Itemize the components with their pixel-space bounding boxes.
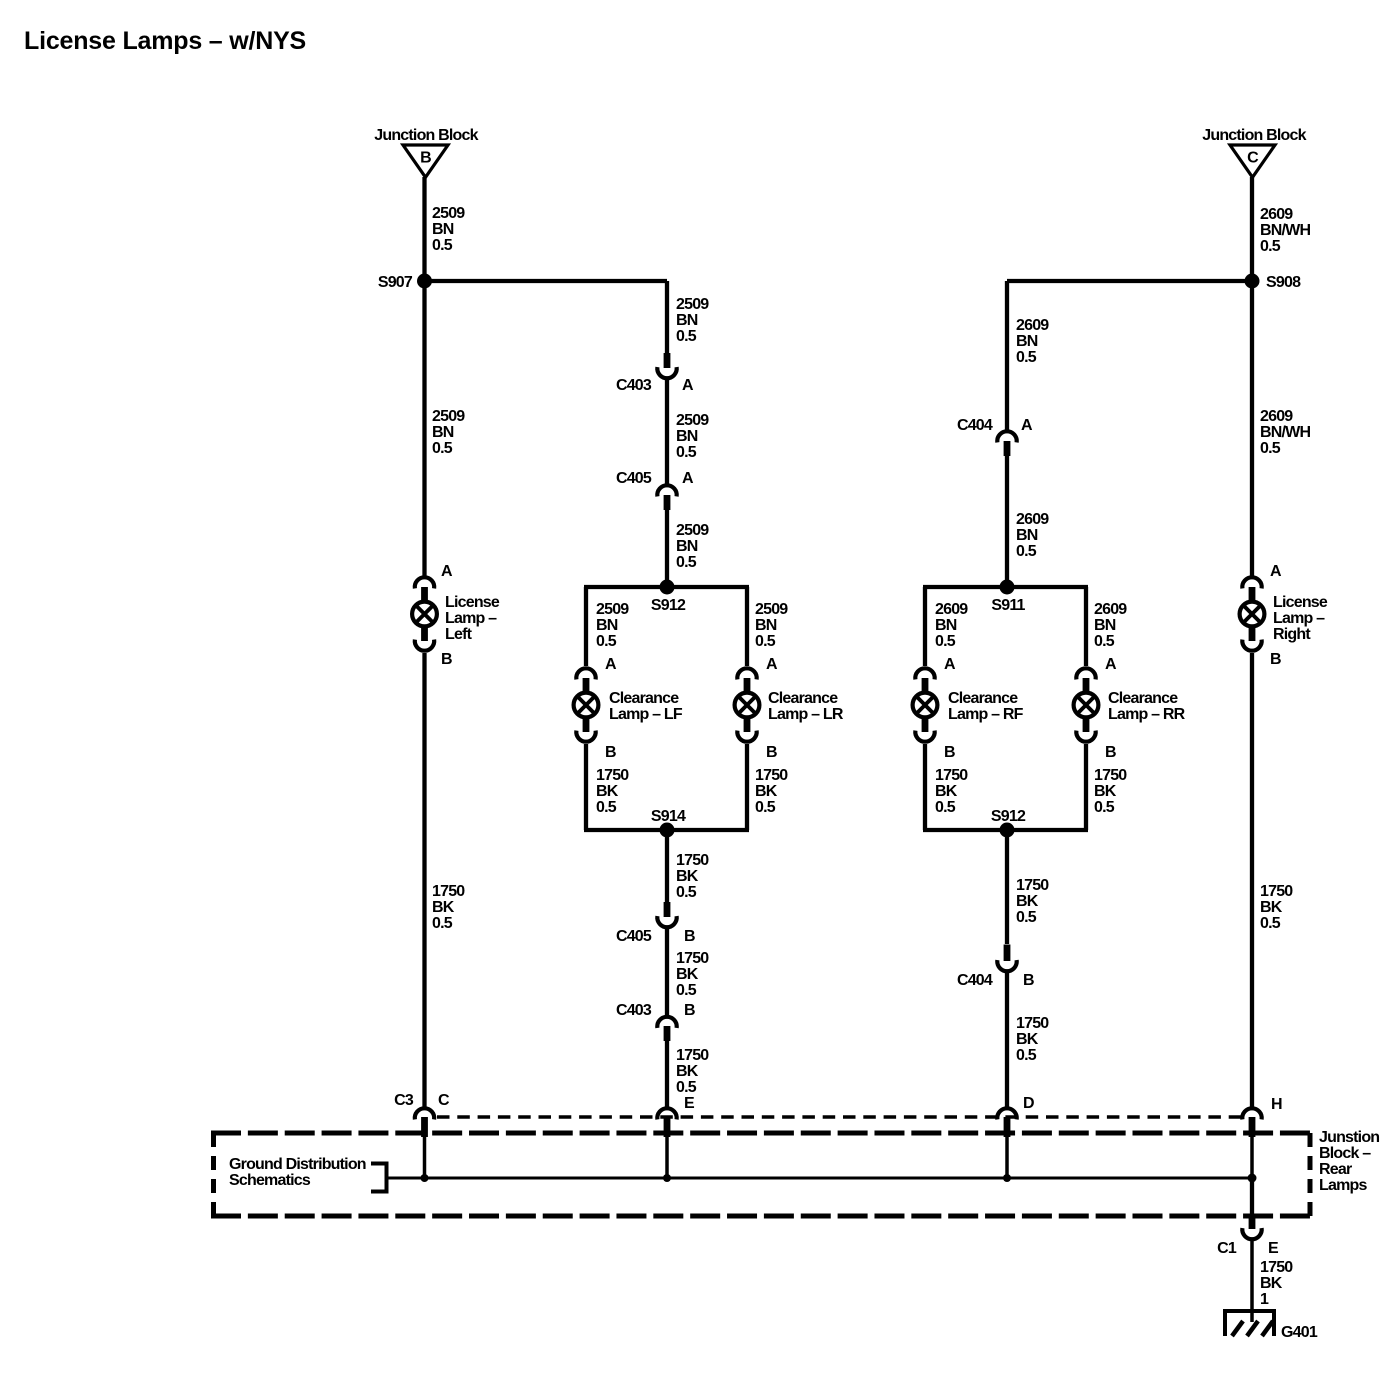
- svg-text:BN/WH: BN/WH: [1260, 222, 1310, 239]
- svg-text:A: A: [682, 470, 694, 487]
- svg-text:BK: BK: [676, 1063, 699, 1080]
- svg-text:Right: Right: [1273, 626, 1311, 643]
- svg-text:0.5: 0.5: [596, 799, 617, 816]
- svg-text:1750: 1750: [1260, 883, 1293, 900]
- svg-text:S912: S912: [651, 597, 686, 614]
- svg-text:0.5: 0.5: [676, 554, 697, 571]
- svg-text:BK: BK: [1016, 1031, 1039, 1048]
- svg-text:C: C: [438, 1092, 450, 1109]
- svg-text:C403: C403: [616, 377, 652, 394]
- svg-text:BN: BN: [1016, 333, 1038, 350]
- svg-text:Clearance: Clearance: [609, 690, 679, 707]
- svg-text:2509: 2509: [432, 205, 465, 222]
- svg-text:Left: Left: [445, 626, 473, 643]
- svg-text:C405: C405: [616, 928, 652, 945]
- svg-text:License: License: [445, 594, 500, 611]
- svg-text:1: 1: [1260, 1291, 1269, 1308]
- svg-text:C1: C1: [1217, 1240, 1237, 1257]
- svg-text:B: B: [441, 651, 452, 668]
- svg-text:BN: BN: [676, 428, 698, 445]
- svg-text:0.5: 0.5: [676, 444, 697, 461]
- svg-text:2509: 2509: [676, 412, 709, 429]
- svg-text:B: B: [684, 1002, 695, 1019]
- svg-text:BK: BK: [1016, 893, 1039, 910]
- svg-text:Junstion: Junstion: [1319, 1129, 1379, 1146]
- svg-text:2609: 2609: [1016, 317, 1049, 334]
- svg-text:1750: 1750: [676, 852, 709, 869]
- svg-text:A: A: [1021, 417, 1033, 434]
- svg-text:1750: 1750: [432, 883, 465, 900]
- svg-text:A: A: [682, 377, 694, 394]
- svg-text:BK: BK: [1094, 783, 1117, 800]
- svg-text:2509: 2509: [676, 296, 709, 313]
- svg-text:A: A: [605, 656, 617, 673]
- svg-text:BK: BK: [1260, 1275, 1283, 1292]
- svg-text:1750: 1750: [935, 767, 968, 784]
- svg-text:BN: BN: [676, 312, 698, 329]
- svg-text:B: B: [420, 150, 431, 167]
- svg-text:BN/WH: BN/WH: [1260, 424, 1310, 441]
- svg-text:S914: S914: [651, 808, 686, 825]
- svg-text:S907: S907: [378, 274, 413, 291]
- svg-text:0.5: 0.5: [1094, 633, 1115, 650]
- svg-text:0.5: 0.5: [676, 884, 697, 901]
- svg-text:2509: 2509: [755, 601, 788, 618]
- svg-text:0.5: 0.5: [676, 1079, 697, 1096]
- svg-text:2509: 2509: [676, 522, 709, 539]
- svg-text:Rear: Rear: [1319, 1161, 1352, 1178]
- svg-text:S912: S912: [991, 808, 1026, 825]
- svg-text:0.5: 0.5: [596, 633, 617, 650]
- svg-text:BN: BN: [432, 221, 454, 238]
- svg-text:0.5: 0.5: [935, 633, 956, 650]
- svg-text:A: A: [944, 656, 956, 673]
- svg-text:C403: C403: [616, 1002, 652, 1019]
- svg-text:C3: C3: [394, 1092, 414, 1109]
- svg-text:0.5: 0.5: [676, 982, 697, 999]
- svg-text:A: A: [1105, 656, 1117, 673]
- svg-text:1750: 1750: [1094, 767, 1127, 784]
- svg-text:2609: 2609: [1260, 206, 1293, 223]
- svg-text:0.5: 0.5: [1016, 1047, 1037, 1064]
- svg-text:B: B: [684, 928, 695, 945]
- svg-text:BK: BK: [755, 783, 778, 800]
- svg-text:0.5: 0.5: [1260, 915, 1281, 932]
- svg-text:Block –: Block –: [1319, 1145, 1371, 1162]
- svg-text:Clearance: Clearance: [1108, 690, 1178, 707]
- svg-text:B: B: [1023, 972, 1034, 989]
- svg-text:2609: 2609: [935, 601, 968, 618]
- svg-text:BK: BK: [935, 783, 958, 800]
- svg-text:BK: BK: [676, 966, 699, 983]
- svg-text:Ground Distribution: Ground Distribution: [229, 1156, 366, 1173]
- svg-text:BN: BN: [755, 617, 777, 634]
- svg-text:B: B: [1270, 651, 1281, 668]
- svg-text:B: B: [605, 744, 616, 761]
- svg-text:0.5: 0.5: [1016, 909, 1037, 926]
- svg-text:0.5: 0.5: [1260, 440, 1281, 457]
- svg-text:D: D: [1023, 1095, 1034, 1112]
- svg-text:E: E: [684, 1095, 695, 1112]
- svg-text:0.5: 0.5: [676, 328, 697, 345]
- svg-text:B: B: [1105, 744, 1116, 761]
- svg-text:Clearance: Clearance: [948, 690, 1018, 707]
- svg-text:B: B: [766, 744, 777, 761]
- svg-text:1750: 1750: [676, 1047, 709, 1064]
- svg-text:Lamp – LR: Lamp – LR: [768, 706, 844, 723]
- svg-text:BN: BN: [935, 617, 957, 634]
- svg-text:0.5: 0.5: [935, 799, 956, 816]
- svg-text:C405: C405: [616, 470, 652, 487]
- svg-text:BN: BN: [432, 424, 454, 441]
- svg-text:0.5: 0.5: [432, 915, 453, 932]
- svg-text:BK: BK: [676, 868, 699, 885]
- svg-text:S908: S908: [1266, 274, 1301, 291]
- svg-text:S911: S911: [991, 597, 1025, 614]
- svg-text:0.5: 0.5: [1016, 543, 1037, 560]
- svg-text:B: B: [944, 744, 955, 761]
- svg-text:H: H: [1271, 1096, 1282, 1113]
- svg-text:BN: BN: [676, 538, 698, 555]
- svg-text:Schematics: Schematics: [229, 1172, 311, 1189]
- svg-text:Junction Block: Junction Block: [374, 127, 478, 144]
- svg-text:C404: C404: [957, 417, 993, 434]
- svg-text:1750: 1750: [1016, 877, 1049, 894]
- svg-text:1750: 1750: [676, 950, 709, 967]
- svg-text:BK: BK: [1260, 899, 1283, 916]
- svg-text:0.5: 0.5: [1094, 799, 1115, 816]
- svg-text:1750: 1750: [1016, 1015, 1049, 1032]
- svg-text:0.5: 0.5: [432, 440, 453, 457]
- svg-text:2609: 2609: [1094, 601, 1127, 618]
- svg-text:Clearance: Clearance: [768, 690, 838, 707]
- svg-text:2509: 2509: [596, 601, 629, 618]
- svg-text:C: C: [1247, 150, 1259, 167]
- svg-text:E: E: [1268, 1240, 1279, 1257]
- svg-text:0.5: 0.5: [755, 633, 776, 650]
- svg-text:A: A: [766, 656, 778, 673]
- svg-text:BK: BK: [432, 899, 455, 916]
- svg-text:1750: 1750: [596, 767, 629, 784]
- svg-text:0.5: 0.5: [1260, 238, 1281, 255]
- svg-text:BN: BN: [1016, 527, 1038, 544]
- svg-text:2609: 2609: [1016, 511, 1049, 528]
- svg-text:Lamp – LF: Lamp – LF: [609, 706, 683, 723]
- svg-text:Lamp –: Lamp –: [1273, 610, 1325, 627]
- svg-text:C404: C404: [957, 972, 993, 989]
- svg-text:Lamps: Lamps: [1319, 1177, 1367, 1194]
- svg-text:BN: BN: [596, 617, 618, 634]
- svg-text:Lamp – RR: Lamp – RR: [1108, 706, 1186, 723]
- svg-text:1750: 1750: [755, 767, 788, 784]
- svg-text:2509: 2509: [432, 408, 465, 425]
- svg-text:G401: G401: [1281, 1324, 1318, 1341]
- svg-text:License Lamps – w/NYS: License Lamps – w/NYS: [24, 27, 306, 55]
- svg-text:BN: BN: [1094, 617, 1116, 634]
- svg-text:0.5: 0.5: [432, 237, 453, 254]
- svg-text:0.5: 0.5: [755, 799, 776, 816]
- svg-text:Lamp –: Lamp –: [445, 610, 497, 627]
- svg-text:1750: 1750: [1260, 1259, 1293, 1276]
- svg-text:License: License: [1273, 594, 1328, 611]
- svg-text:A: A: [441, 563, 453, 580]
- svg-text:A: A: [1270, 563, 1282, 580]
- svg-text:0.5: 0.5: [1016, 349, 1037, 366]
- svg-text:2609: 2609: [1260, 408, 1293, 425]
- svg-text:Junction Block: Junction Block: [1202, 127, 1306, 144]
- svg-text:Lamp – RF: Lamp – RF: [948, 706, 1024, 723]
- svg-text:BK: BK: [596, 783, 619, 800]
